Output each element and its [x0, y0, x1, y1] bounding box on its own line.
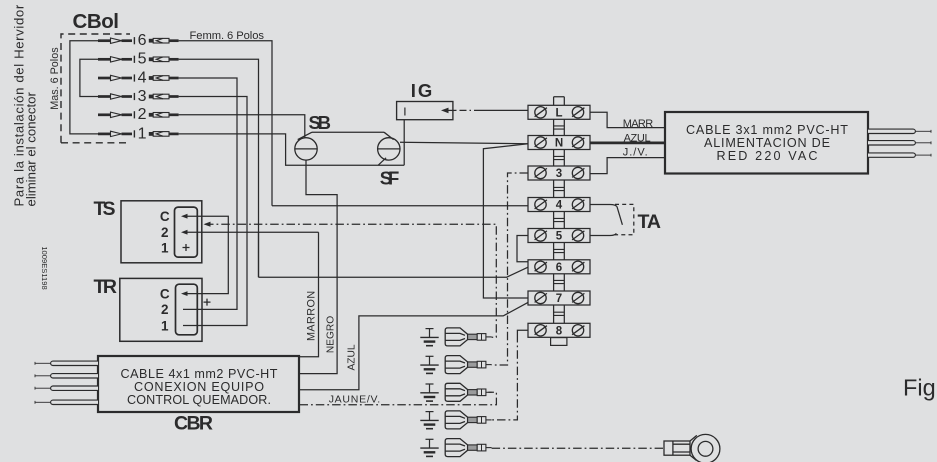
wire SB bottom / NEGRO run [300, 160, 338, 374]
thermal switch SB [295, 132, 317, 160]
TS pin 1 plus mark [183, 244, 190, 251]
supply wire 1 [868, 129, 931, 133]
spade connector 5 [445, 439, 491, 457]
svg-text:Mas. 6 Polos: Mas. 6 Polos [49, 47, 61, 110]
rail separator [554, 126, 565, 129]
connector female pin 5 [149, 57, 178, 62]
wire MARRON run [300, 232, 319, 357]
pin 2 tick [133, 111, 135, 118]
wire pin5 down [179, 59, 259, 277]
wire dash-dot JAUNE/V. to spade 3 [300, 392, 497, 405]
svg-text:TR: TR [94, 276, 118, 298]
connector TS inner [175, 207, 198, 257]
TR pin C arrow [181, 291, 188, 296]
svg-text:ALIMENTACION DE: ALIMENTACION DE [704, 136, 830, 150]
TR plus mark [204, 299, 211, 306]
ground 1 [420, 329, 438, 346]
wire pin6 to terminal 4 [179, 41, 272, 206]
terminal N [528, 136, 590, 150]
wire dash-dot spade 5 to ring [492, 447, 663, 449]
wire node terminal-6 feed [259, 267, 529, 277]
wire terminal 4 to TA [590, 205, 617, 207]
svg-text:CABLE 3x1 mm2 PVC-HT: CABLE 3x1 mm2 PVC-HT [686, 123, 848, 137]
rail separator [554, 218, 565, 221]
wire jumper CBol pin5-pin3 [80, 59, 99, 96]
ground 2 [420, 356, 438, 373]
terminal rail bottom tab [551, 338, 567, 346]
terminal 7 [528, 291, 590, 305]
svg-text:5: 5 [556, 231, 563, 243]
terminal 5 [528, 229, 590, 243]
wire TS C to TR C [183, 216, 228, 293]
pin 3 tick [133, 93, 135, 100]
svg-text:2: 2 [138, 106, 147, 123]
connector CBol dashed outline [61, 34, 130, 143]
svg-text:SB: SB [309, 112, 332, 133]
wire SB to SF [312, 131, 384, 133]
svg-text:6: 6 [556, 262, 562, 274]
svg-text:SF: SF [380, 168, 400, 189]
connector TR inner [176, 284, 198, 335]
svg-text:CBR: CBR [174, 413, 213, 435]
connector TS outer box [121, 201, 202, 263]
wire pin1 down to SF-bottom line [179, 134, 405, 165]
wire terminal 8 hook [517, 330, 528, 334]
ring terminal [664, 434, 720, 462]
svg-text:1: 1 [161, 318, 169, 333]
terminal 4 [528, 198, 590, 212]
wire terminal N to 7 vertical [483, 144, 528, 298]
svg-text:CONEXION EQUIPO: CONEXION EQUIPO [134, 380, 264, 394]
svg-text:5: 5 [138, 51, 147, 68]
svg-text:2: 2 [161, 302, 169, 317]
box CABLE 3x1 ALIMENTACION [665, 112, 868, 174]
svg-text:TS: TS [94, 198, 116, 220]
svg-text:AZUL: AZUL [624, 132, 651, 144]
svg-text:L: L [555, 108, 562, 120]
connector female pin 2 [149, 113, 178, 118]
terminal 3 [528, 166, 590, 180]
connector male pin 4 [98, 75, 132, 80]
rail separator [554, 156, 565, 159]
svg-text:N: N [555, 138, 563, 150]
svg-text:RED 220 VAC: RED 220 VAC [717, 149, 818, 163]
TA switch blade [617, 207, 622, 225]
svg-text:3: 3 [138, 88, 147, 105]
svg-text:CBol: CBol [73, 10, 120, 33]
TS pin 2 arrow [181, 230, 188, 235]
svg-text:CONTROL QUEMADOR.: CONTROL QUEMADOR. [127, 393, 271, 407]
spade connector 3 [445, 383, 491, 401]
svg-text:AZUL: AZUL [347, 344, 358, 370]
svg-text:CABLE 4x1 mm2 PVC-HT: CABLE 4x1 mm2 PVC-HT [121, 367, 278, 381]
wire SF to terminal N [400, 142, 528, 143]
terminal rail [554, 97, 565, 346]
svg-text:6: 6 [138, 32, 147, 49]
wire dash-dot terminal 8 to spade 4 [492, 334, 518, 420]
IG arrowhead [441, 108, 449, 114]
svg-text:JAUNE/V.: JAUNE/V. [329, 394, 381, 406]
spade connector 4 [445, 411, 491, 429]
wire pin4 to TR pin 2 [179, 78, 237, 309]
terminal L [528, 105, 590, 119]
svg-text:MARRON: MARRON [306, 290, 318, 341]
CBR wire 3 [35, 386, 98, 390]
rail separator [554, 249, 565, 252]
connector male pin 1 [98, 131, 132, 136]
IG inner pin tick [404, 108, 406, 116]
supply wire 2 [868, 141, 931, 145]
TA dash-dot arrowhead at TS [204, 222, 211, 227]
connector male pin 5 [98, 57, 132, 62]
svg-text:3: 3 [556, 168, 562, 180]
TA dashed outline [615, 204, 634, 234]
wire terminal 5 to TA [590, 233, 616, 235]
terminal 6 [528, 260, 590, 274]
svg-text:NEGRO: NEGRO [326, 316, 337, 353]
supply wire 3 [868, 153, 931, 157]
svg-text:4: 4 [556, 200, 563, 212]
wire terminal N to box (AZUL thick) [590, 142, 665, 145]
wire AZUL to terminal 7 [300, 302, 529, 389]
wire TS 2 to MARRON [183, 231, 319, 233]
wire dash-dot terminal 3 to spade 2 [492, 173, 528, 365]
connector female pin 3 [149, 94, 178, 99]
TS pin C arrow [181, 214, 188, 219]
rail separator [554, 187, 565, 190]
svg-text:IG: IG [411, 80, 433, 101]
svg-text:Fig.: Fig. [903, 375, 937, 401]
rail separator [554, 280, 565, 283]
wire jumper CBol pin6-pin1 [70, 41, 99, 134]
pin 4 tick [133, 74, 135, 81]
wire IG left pin vertical [403, 120, 405, 166]
svg-text:C: C [160, 209, 170, 224]
wire link terminal 5 to 6 [517, 236, 528, 262]
pin 5 tick [133, 56, 135, 63]
svg-text:eliminar el conector: eliminar el conector [24, 92, 39, 207]
rail separator [554, 312, 565, 315]
wire terminal 3 to box (J./V.) [590, 158, 665, 174]
wire dash-dot TA line [205, 224, 496, 337]
wire pin2 to SB top [179, 115, 305, 138]
switch IG box [397, 102, 453, 120]
connector male pin 3 [98, 94, 132, 99]
wire terminal L to IG [481, 109, 528, 111]
pin 6 tick [133, 37, 135, 44]
connector female pin 6 [149, 38, 178, 43]
connector female pin 4 [149, 76, 178, 81]
ground 3 [420, 384, 438, 401]
svg-text:C: C [160, 286, 170, 301]
svg-text:7: 7 [556, 293, 562, 305]
connector female pin 1 [149, 132, 178, 137]
wire pin3 to TR pin 1 [179, 97, 247, 326]
connector male pin 2 [98, 112, 132, 117]
box CABLE 4x1 CBR [98, 356, 299, 412]
svg-text:TA: TA [638, 211, 662, 233]
wire MARRON branch to terminal 6 [258, 232, 260, 277]
CBR wire 1 [35, 361, 98, 365]
connector TR outer box [120, 278, 202, 341]
pin 1 tick [133, 130, 135, 137]
wire node terminal-4 feed [272, 205, 528, 207]
ground 4 [420, 412, 438, 429]
svg-text:1009ES1198: 1009ES1198 [40, 246, 49, 289]
ground 5 [420, 439, 438, 456]
spade connector 1 [445, 328, 491, 346]
connector male pin 6 [98, 38, 132, 43]
svg-text:Femm. 6 Polos: Femm. 6 Polos [190, 30, 265, 42]
wire terminal L to box (MARR) [590, 112, 665, 127]
thermal switch SF [378, 132, 400, 160]
CBR wire 4 [35, 400, 98, 404]
svg-text:8: 8 [556, 326, 563, 338]
spade connector 2 [445, 356, 491, 374]
svg-text:J./V.: J./V. [623, 146, 648, 158]
svg-text:1: 1 [161, 240, 169, 255]
terminal 8 [528, 323, 590, 337]
CBR wire 2 [35, 374, 98, 378]
svg-text:2: 2 [161, 225, 169, 240]
wire SF bottom diagonal [378, 158, 386, 165]
svg-text:1: 1 [138, 125, 147, 142]
svg-text:MARR: MARR [623, 118, 654, 130]
svg-text:4: 4 [138, 69, 147, 86]
